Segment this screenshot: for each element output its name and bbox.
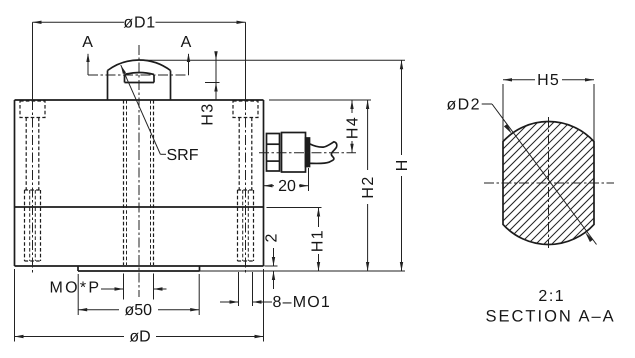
H4 dim line upper [351,100,353,113]
center hole major dia right hidden [153,100,155,265]
section arrow riser left [87,54,89,75]
body left edge [14,100,16,266]
dim 2 leader lower [273,271,275,289]
left bolt hole thread minor right hidden [34,190,36,261]
dim oD1 right arrow [237,21,246,24]
dim H5 line left [503,79,535,81]
svg-text:20: 20 [278,178,296,195]
svg-text:øD1: øD1 [123,14,156,31]
dim H5 line right [562,79,594,81]
body top extension line [269,99,371,101]
top boss right edge [170,71,172,101]
cable centerline [259,152,356,154]
o50 left arrow [78,308,87,311]
dim 20 right extension [308,168,310,191]
H4 dim line lower [351,141,353,153]
body bottom edge [15,265,264,267]
H2 bottom arrow [366,262,369,271]
oD1 left extension [32,22,34,100]
gland flange ring [267,134,280,172]
right bolt hole counterbore hidden [233,101,258,118]
svg-text:H3: H3 [200,102,217,125]
svg-text:H2: H2 [360,175,377,198]
svg-text:8–MO1: 8–MO1 [273,294,331,311]
plateau bottom edge [125,82,155,84]
svg-text:SECTION A–A: SECTION A–A [485,308,615,326]
H4 bottom arrow [350,144,353,153]
H5 extension left [502,84,504,142]
H5 left arrow [503,78,512,81]
right bolt hole thread start hidden [238,189,254,191]
dome apex extension line [140,59,405,61]
svg-text:ø50: ø50 [125,302,153,319]
oD2 arrow upper [504,124,512,134]
8-MO1 extension right [252,272,254,306]
gland ring hex line lower [267,160,280,162]
center hole minor dia right hidden [150,100,152,265]
section arrow right [187,53,190,62]
svg-text:H5: H5 [537,72,560,89]
dim 2 lower arrow [272,271,275,280]
8-MO1 right-pointing arrow [230,300,239,303]
svg-text:H4: H4 [345,116,362,139]
SRF leader line [121,65,161,154]
svg-text:2: 2 [264,233,281,242]
8-MO1 left-pointing arrow [253,300,262,303]
o50 extension right [198,274,200,315]
dim oD line right [156,336,264,338]
mid joint extension line [267,207,322,209]
H5 right arrow [585,78,594,81]
dim 2 upper extension [265,265,278,267]
SRF leader arrow [121,65,126,74]
dim 20 line left [264,185,275,187]
dim 20 left arrow [264,184,273,187]
dome arc SRF surface [108,60,171,70]
section line A-A [88,74,189,76]
svg-text:A: A [82,34,93,51]
H1 dim line upper [318,208,320,228]
oD left arrow [15,335,24,338]
svg-text:øD2: øD2 [447,97,481,114]
svg-text:H1: H1 [309,229,326,252]
dim oD1 line right [156,21,246,23]
MO*P left-pointing arrow [154,287,163,290]
svg-text:SRF: SRF [167,147,199,164]
oD2 arrow lower [585,232,593,242]
dim 20 right arrow [300,184,309,187]
o50 extension left [77,274,79,315]
section A-A outline stroke [503,121,594,244]
8-MO1 extension left [238,272,240,306]
gland body [282,133,306,173]
dim o50 line right [158,309,199,311]
right bolt hole thread major right hidden [253,190,255,261]
H bottom arrow [400,262,403,271]
flange joint line [15,206,264,208]
H dim line upper [401,60,403,155]
MO*P right-pointing arrow [115,287,124,290]
dim 20 line right [299,185,309,187]
left bolt hole thread major left hidden [24,190,26,261]
MO*P extension left [123,274,125,300]
right bolt hole hole bottom hidden [238,260,254,262]
left bolt hole centerline [32,100,34,273]
SRF leader tail [160,153,166,155]
H2 dim line upper [367,100,369,170]
left bolt hole thread minor left hidden [29,190,31,261]
right bolt hole thread minor left hidden [242,190,244,261]
oD2 leader tail [482,103,492,105]
svg-text:A: A [181,34,192,51]
bottom boss bottom edge [78,270,200,272]
vertical centerline [138,45,140,297]
center hole minor dia left hidden [126,100,128,265]
section arrow left [86,53,89,62]
body right edge [263,100,265,266]
right bolt hole clearance left hidden [238,118,240,191]
left bolt hole thread major right hidden [40,190,42,261]
dim 2 upper arrow [272,257,275,266]
dim MO*P line right [154,288,167,290]
right bolt hole clearance right hidden [251,118,253,191]
H3 dim line [215,54,217,101]
oD right arrow [255,335,264,338]
right bolt hole thread minor right hidden [247,190,249,261]
center hole major dia left hidden [123,100,125,265]
H1 bottom arrow [317,262,320,271]
H4 top arrow [350,100,353,109]
o50 right arrow [190,308,199,311]
gland collar [306,138,310,167]
H3 lower arrow [214,83,217,92]
H1 top arrow [317,208,320,217]
left bolt hole counterbore hidden [20,101,45,118]
dim oD1 line left [33,21,125,23]
dim 8-MO1 line right [253,301,273,303]
dim 2 leader upper [273,248,275,266]
dim MO*P line left [101,288,124,290]
plateau left edge [124,75,126,83]
right bolt hole centerline [245,100,247,273]
section hatching [339,117,635,250]
bottom boss right edge [199,266,201,271]
H3 lower extension [205,82,220,84]
H5 extension right [593,84,595,142]
H2 dim line lower [367,204,369,271]
left bolt hole thread start hidden [25,189,41,191]
right bolt hole thread major left hidden [237,190,239,261]
svg-text:H: H [394,160,411,172]
oD2 diameter line [492,104,597,245]
load button plateau top arc [125,73,155,75]
oD extension right [263,269,265,342]
cable with torn end [310,142,337,164]
body top edge [15,99,264,101]
H3 upper arrow [214,51,217,60]
svg-text:øD: øD [129,329,150,346]
top boss left edge [107,71,109,101]
left bolt hole clearance right hidden [38,118,40,191]
H1 dim line lower [318,254,320,271]
bottom face extension line [200,270,406,272]
section vertical centerline [548,117,550,248]
dim 8-MO1 line left [220,301,239,303]
H top arrow [400,60,403,69]
left bolt hole hole bottom hidden [25,260,41,262]
dim o50 line left [78,309,119,311]
dim oD line left [15,336,125,338]
MO*P extension right [153,274,155,300]
gland ring hex line upper [267,143,280,145]
section horizontal centerline [484,182,614,184]
left bolt hole clearance left hidden [25,118,27,191]
oD1 right extension [245,22,247,100]
svg-text:2:1: 2:1 [538,288,565,305]
H2 top arrow [366,100,369,109]
section arrow riser right [188,54,190,75]
svg-text:MO*P: MO*P [50,280,102,297]
dim oD1 left arrow [33,21,42,24]
H dim line lower [401,176,403,271]
oD extension left [14,269,16,342]
bottom boss left edge [77,266,79,271]
plateau right edge [153,75,155,83]
